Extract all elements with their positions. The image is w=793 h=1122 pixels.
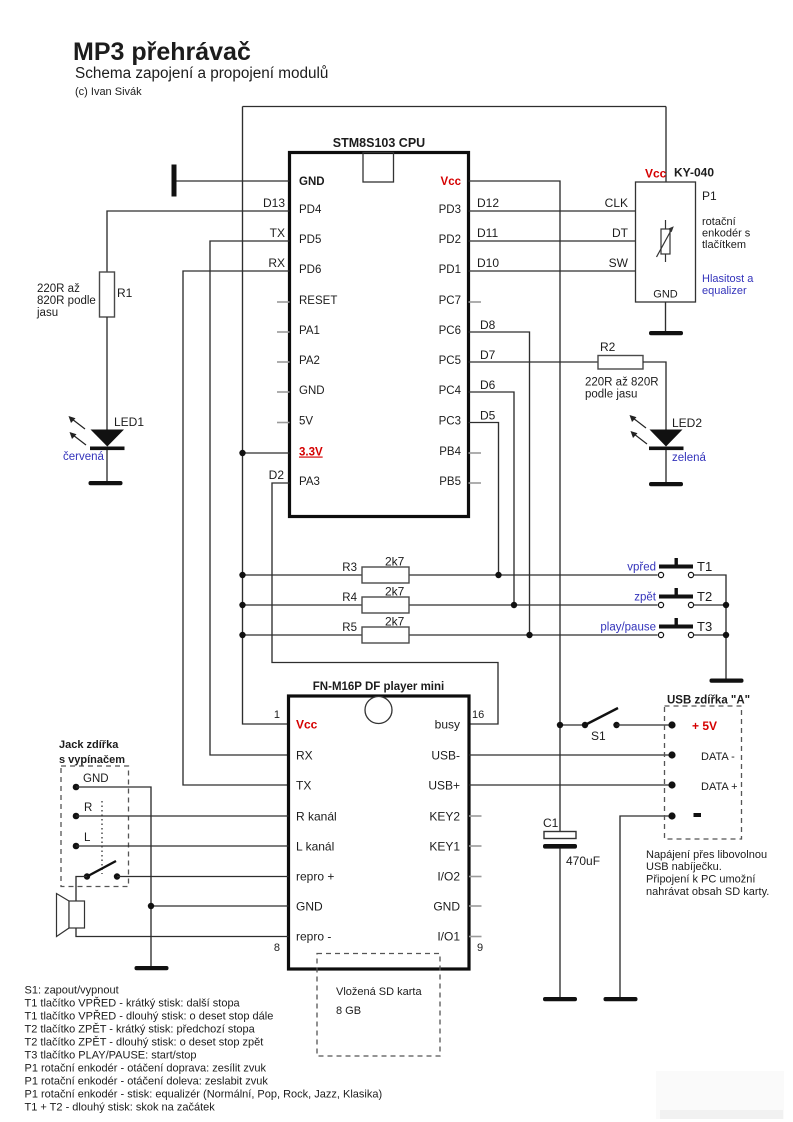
svg-text:KEY1: KEY1	[429, 840, 460, 854]
svg-text:D2: D2	[269, 468, 285, 482]
resistor R5	[243, 634, 658, 636]
svg-text:PD3: PD3	[439, 204, 461, 216]
svg-text:R2: R2	[600, 340, 616, 354]
svg-text:RESET: RESET	[299, 295, 337, 307]
svg-text:D8: D8	[480, 318, 496, 332]
svg-text:DATA +: DATA +	[701, 781, 738, 793]
CPU U1 STM8S103	[290, 153, 469, 517]
wire D5	[469, 423, 499, 576]
FN-M16P U2	[289, 696, 470, 969]
svg-text:Vcc: Vcc	[645, 167, 667, 181]
svg-text:PD5: PD5	[299, 234, 321, 246]
wire FN GND	[151, 905, 289, 907]
resistor R1	[100, 272, 115, 317]
svg-text:3.3V: 3.3V	[299, 447, 323, 459]
svg-text:PC6: PC6	[439, 325, 461, 337]
svg-text:D5: D5	[480, 409, 496, 423]
svg-text:tlačítkem: tlačítkem	[702, 239, 746, 251]
svg-text:R4: R4	[342, 592, 357, 604]
svg-text:T1 tlačítko VPŘED - krátký sti: T1 tlačítko VPŘED - krátký stisk: další …	[25, 997, 241, 1010]
CPU notch	[363, 153, 394, 183]
jack L pin	[73, 843, 80, 850]
LED2	[650, 430, 683, 447]
svg-text:P1 rotační enkodér - otáčení d: P1 rotační enkodér - otáčení doprava: ze…	[25, 1063, 267, 1075]
svg-text:16: 16	[472, 709, 484, 721]
svg-text:LED1: LED1	[114, 415, 144, 429]
svg-text:T2: T2	[697, 589, 712, 604]
jack socket dashed box	[61, 766, 129, 887]
svg-text:s vypínačem: s vypínačem	[59, 754, 125, 766]
junction 3.3V rail / CPU 3.3V pin	[239, 450, 245, 456]
svg-text:D11: D11	[477, 226, 498, 240]
svg-text:T3: T3	[697, 619, 712, 634]
USB socket dashed box	[665, 706, 742, 839]
svg-text:+ 5V: + 5V	[692, 719, 717, 733]
wire D8	[469, 332, 530, 635]
wire KY GND	[665, 302, 667, 331]
svg-text:TX: TX	[270, 226, 285, 240]
svg-text:USB nabíječku.: USB nabíječku.	[646, 861, 722, 873]
junction 3.3V rail / R4 row	[239, 602, 245, 608]
svg-text:busy: busy	[435, 718, 460, 732]
wire USB+	[469, 784, 672, 786]
junction D8 / T3 row	[526, 632, 532, 638]
svg-text:I/O2: I/O2	[437, 870, 460, 884]
svg-text:8 GB: 8 GB	[336, 1005, 361, 1017]
svg-text:FN-M16P DF player mini: FN-M16P DF player mini	[313, 681, 444, 693]
KY-040 P1	[636, 182, 696, 302]
svg-text:equalizer: equalizer	[702, 285, 747, 297]
svg-text:enkodér s: enkodér s	[702, 228, 751, 240]
svg-text:zpět: zpět	[634, 592, 657, 604]
svg-text:PB5: PB5	[439, 476, 461, 488]
svg-text:1: 1	[274, 709, 280, 721]
svg-text:podle jasu: podle jasu	[585, 389, 637, 401]
junction T2 right rail	[723, 602, 729, 608]
button T1	[658, 558, 693, 578]
svg-text:R3: R3	[342, 562, 357, 574]
wire RX	[183, 271, 290, 785]
svg-text:8: 8	[274, 942, 280, 954]
ground T buttons	[710, 679, 744, 683]
svg-text:nahrávat obsah SD karty.: nahrávat obsah SD karty.	[646, 886, 769, 898]
wire CPU GND	[177, 180, 290, 182]
wire repro-	[76, 928, 289, 937]
svg-text:D6: D6	[480, 378, 496, 392]
svg-text:P1: P1	[702, 189, 717, 203]
svg-text:D10: D10	[477, 256, 499, 270]
svg-text:CLK: CLK	[605, 196, 628, 210]
wire D6	[469, 392, 515, 605]
svg-text:červená: červená	[63, 451, 105, 463]
svg-text:zelená: zelená	[672, 452, 706, 464]
svg-text:P1 rotační enkodér - otáčení d: P1 rotační enkodér - otáčení doleva: zes…	[25, 1076, 269, 1088]
svg-text:PA1: PA1	[299, 325, 320, 337]
wire D12 CLK	[469, 210, 636, 212]
potentiometer symbol	[657, 220, 672, 262]
svg-text:GND: GND	[83, 773, 109, 785]
junction 3.3V rail / R3 row	[239, 572, 245, 578]
speaker LS1	[57, 894, 70, 937]
ground jack	[135, 966, 169, 970]
capacitor C1	[544, 832, 576, 839]
svg-text:Vcc: Vcc	[296, 718, 318, 732]
jack R pin	[73, 813, 80, 820]
svg-text:STM8S103 CPU: STM8S103 CPU	[333, 136, 425, 150]
svg-text:220R až 820R: 220R až 820R	[585, 377, 659, 389]
junction Vcc rail / S1	[557, 722, 563, 728]
svg-text:jasu: jasu	[36, 307, 58, 319]
svg-text:USB+: USB+	[428, 779, 460, 793]
svg-text:D7: D7	[480, 348, 496, 362]
svg-text:PD6: PD6	[299, 264, 321, 276]
svg-text:Jack zdířka: Jack zdířka	[59, 739, 119, 751]
svg-text:GND: GND	[653, 289, 678, 301]
svg-text:T2 tlačítko ZPĚT - krátký stis: T2 tlačítko ZPĚT - krátký stisk: předcho…	[25, 1023, 256, 1036]
svg-text:LED2: LED2	[672, 416, 702, 430]
CPU pin stubs left	[277, 301, 290, 303]
FN right stubs	[469, 815, 482, 817]
svg-text:PA3: PA3	[299, 476, 320, 488]
wire T right rail	[694, 575, 726, 679]
svg-text:GND: GND	[433, 900, 460, 914]
wire R2 to LED2	[643, 362, 666, 430]
ground KY	[649, 331, 683, 335]
svg-text:PB4: PB4	[439, 446, 461, 458]
wire KY Vcc drop	[665, 107, 667, 183]
svg-text:T1 tlačítko VPŘED - dlouhý sti: T1 tlačítko VPŘED - dlouhý stisk: o dese…	[25, 1010, 274, 1023]
svg-text:repro +: repro +	[296, 870, 334, 884]
ground LED1	[89, 481, 123, 485]
wire D2 to busy	[272, 483, 498, 724]
svg-text:PD2: PD2	[439, 234, 461, 246]
svg-text:KEY2: KEY2	[429, 810, 460, 824]
watermark block	[656, 1071, 784, 1119]
wire 3.3V	[243, 452, 290, 454]
LED1	[91, 430, 125, 447]
svg-text:Vcc: Vcc	[441, 176, 462, 188]
svg-text:Připojení k PC umožní: Připojení k PC umožní	[646, 874, 755, 886]
svg-text:vpřed: vpřed	[627, 562, 656, 574]
junction D5 / T1 row	[495, 572, 501, 578]
svg-text:R1: R1	[117, 286, 133, 300]
jack switch	[101, 801, 103, 874]
svg-text:GND: GND	[299, 176, 325, 188]
CPU pin stubs right	[469, 301, 482, 303]
svg-text:2k7: 2k7	[385, 615, 405, 629]
svg-text:Schema zapojení a propojení mo: Schema zapojení a propojení modulů	[75, 65, 328, 82]
wire D7	[469, 361, 599, 363]
svg-text:C1: C1	[543, 816, 559, 830]
junction T3 right rail	[723, 632, 729, 638]
svg-text:rotační: rotační	[702, 216, 736, 228]
svg-text:PD4: PD4	[299, 204, 322, 216]
svg-text:R: R	[84, 802, 92, 814]
svg-text:T2 tlačítko ZPĚT - dlouhý stis: T2 tlačítko ZPĚT - dlouhý stisk: o deset…	[25, 1036, 264, 1049]
svg-text:USB zdířka "A": USB zdířka "A"	[667, 695, 750, 707]
junction D6 / T2 row	[511, 602, 517, 608]
svg-text:T1: T1	[697, 559, 712, 574]
wire repro+	[117, 876, 289, 878]
svg-text:T1 + T2 - dlouhý stisk: skok n: T1 + T2 - dlouhý stisk: skok na začátek	[25, 1102, 216, 1114]
svg-text:R5: R5	[342, 622, 357, 634]
svg-text:I/O1: I/O1	[437, 930, 460, 944]
wire R1 to LED1	[106, 317, 108, 430]
button T3	[658, 618, 693, 638]
wire top Vcc rail	[243, 106, 667, 108]
svg-text:PC4: PC4	[439, 385, 462, 397]
ground C1	[543, 997, 577, 1001]
svg-text:repro -: repro -	[296, 930, 331, 944]
S1 switch	[560, 724, 585, 726]
svg-text:GND: GND	[296, 900, 323, 914]
svg-text:TX: TX	[296, 779, 311, 793]
svg-text:GND: GND	[299, 385, 325, 397]
button T2	[658, 588, 693, 608]
resistor R3	[243, 574, 658, 576]
LED2 arrows	[633, 418, 647, 444]
svg-text:S1: S1	[591, 729, 606, 743]
svg-text:D12: D12	[477, 196, 499, 210]
junction 3.3V rail / R5 row	[239, 632, 245, 638]
svg-text:820R podle: 820R podle	[37, 295, 96, 307]
svg-text:5V: 5V	[299, 416, 313, 428]
wire Vcc CPU to S1/C1	[469, 181, 561, 832]
svg-text:P1 rotační enkodér - stisk: eq: P1 rotační enkodér - stisk: equalizér (N…	[25, 1089, 383, 1101]
wire speaker top	[76, 877, 87, 902]
svg-text:D13: D13	[263, 196, 285, 210]
junction GND rail / FN GND	[148, 903, 154, 909]
svg-text:PC3: PC3	[439, 416, 461, 428]
svg-text:9: 9	[477, 942, 483, 954]
svg-text:470uF: 470uF	[566, 854, 600, 868]
LED1 arrows	[72, 419, 86, 445]
svg-text:DT: DT	[612, 226, 629, 240]
svg-text:PC7: PC7	[439, 295, 461, 307]
ground LED2	[649, 482, 683, 486]
svg-text:USB-: USB-	[431, 749, 460, 763]
wire D11 DT	[469, 240, 636, 242]
svg-text:PA2: PA2	[299, 355, 320, 367]
svg-text:L: L	[84, 832, 91, 844]
svg-text:S1: zapout/vypnout: S1: zapout/vypnout	[25, 985, 119, 997]
svg-text:DATA -: DATA -	[701, 751, 735, 763]
wire minus pin	[620, 816, 672, 997]
ground minus	[604, 997, 638, 1001]
wire 3.3V rail vertical	[243, 107, 289, 725]
svg-text:(c) Ivan Sivák: (c) Ivan Sivák	[75, 86, 142, 98]
svg-text:R kanál: R kanál	[296, 810, 337, 824]
svg-text:RX: RX	[296, 749, 313, 763]
svg-text:Hlasitost a: Hlasitost a	[702, 273, 754, 285]
ground bar top-left	[172, 165, 177, 197]
svg-text:L kanál: L kanál	[296, 840, 334, 854]
svg-text:2k7: 2k7	[385, 585, 405, 599]
svg-text:MP3 přehrávač: MP3 přehrávač	[73, 38, 251, 66]
svg-text:PD1: PD1	[439, 264, 461, 276]
svg-text:KY-040: KY-040	[674, 166, 714, 180]
svg-text:Vložená SD karta: Vložená SD karta	[336, 986, 422, 998]
svg-text:SW: SW	[609, 256, 629, 270]
wire USB-	[469, 754, 672, 756]
resistor R2	[598, 356, 643, 370]
wire D10 SW	[469, 270, 636, 272]
svg-text:T3 tlačítko PLAY/PAUSE: start/: T3 tlačítko PLAY/PAUSE: start/stop	[25, 1050, 197, 1062]
svg-text:2k7: 2k7	[385, 555, 405, 569]
svg-text:PC5: PC5	[439, 355, 461, 367]
svg-text:220R až: 220R až	[37, 283, 80, 295]
SD card dashed box	[317, 954, 440, 1057]
wire D13	[107, 211, 290, 272]
svg-text:RX: RX	[268, 256, 285, 270]
jack GND pin	[73, 784, 80, 791]
wire TX	[210, 241, 290, 755]
svg-text:play/pause: play/pause	[600, 622, 656, 634]
resistor R4	[243, 604, 658, 606]
svg-text:Napájení přes libovolnou: Napájení přes libovolnou	[646, 849, 767, 861]
